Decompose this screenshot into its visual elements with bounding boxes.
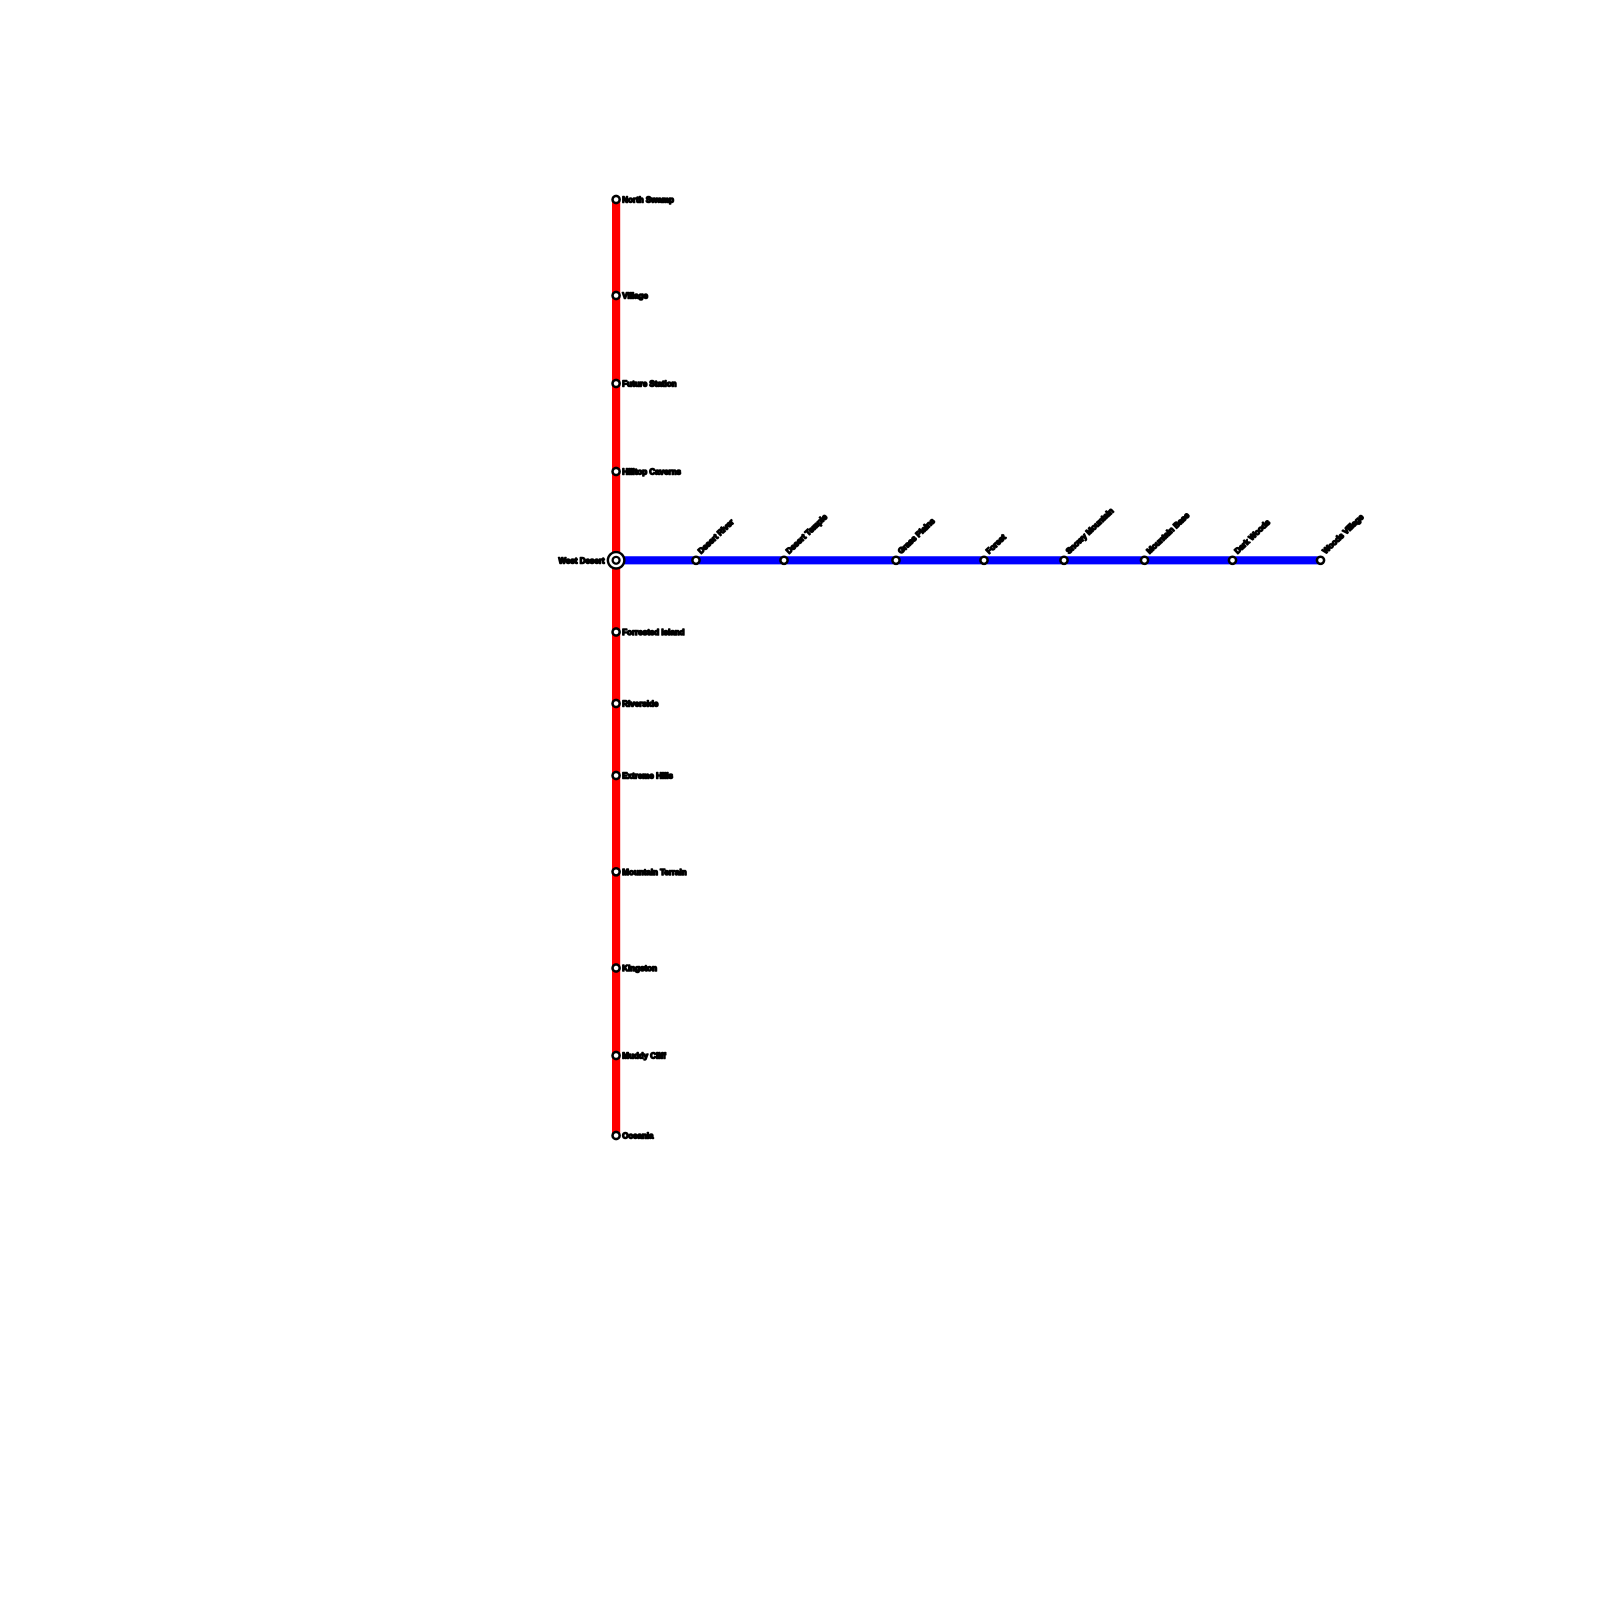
svg-text:Muddy Cliff: Muddy Cliff [622, 1052, 666, 1061]
station Dark Woods [1228, 517, 1273, 565]
svg-text:Oceania: Oceania [622, 1132, 654, 1141]
station Snowy Mountain [1059, 506, 1115, 565]
svg-text:Extreme Hills: Extreme Hills [622, 772, 673, 781]
station Kingston [611, 963, 657, 973]
station Grass Plains [891, 516, 937, 565]
red line (vertical) [612, 200, 620, 1136]
station North Swamp [611, 195, 674, 205]
station Mountain Terrain [611, 867, 686, 877]
station Mountain Base [1140, 511, 1192, 566]
svg-text:Future Station: Future Station [622, 380, 676, 389]
station Desert River [691, 518, 736, 566]
station Extreme Hills [611, 771, 673, 781]
svg-text:Riverside: Riverside [622, 700, 659, 709]
interchange West Desert [559, 551, 626, 570]
station Forest [979, 533, 1008, 566]
station Riverside [611, 699, 659, 709]
svg-text:Kingston: Kingston [622, 964, 657, 973]
svg-text:North Swamp: North Swamp [622, 196, 674, 205]
station Forrested Island [611, 627, 684, 637]
svg-text:Village: Village [622, 292, 648, 301]
station Village [611, 291, 648, 301]
svg-text:Mountain Terrain: Mountain Terrain [622, 868, 686, 877]
blue line (horizontal) [616, 556, 1320, 564]
station Oceania [611, 1131, 654, 1141]
svg-text:Forrested Island: Forrested Island [622, 628, 684, 637]
svg-text:West Desert: West Desert [559, 556, 605, 565]
station Desert Temple [779, 512, 829, 565]
svg-text:Hilltop Caverns: Hilltop Caverns [622, 468, 681, 477]
station Woods Village [1316, 512, 1366, 565]
station Muddy Cliff [611, 1051, 666, 1061]
station Future Station [611, 379, 676, 389]
station Hilltop Caverns [611, 467, 681, 477]
